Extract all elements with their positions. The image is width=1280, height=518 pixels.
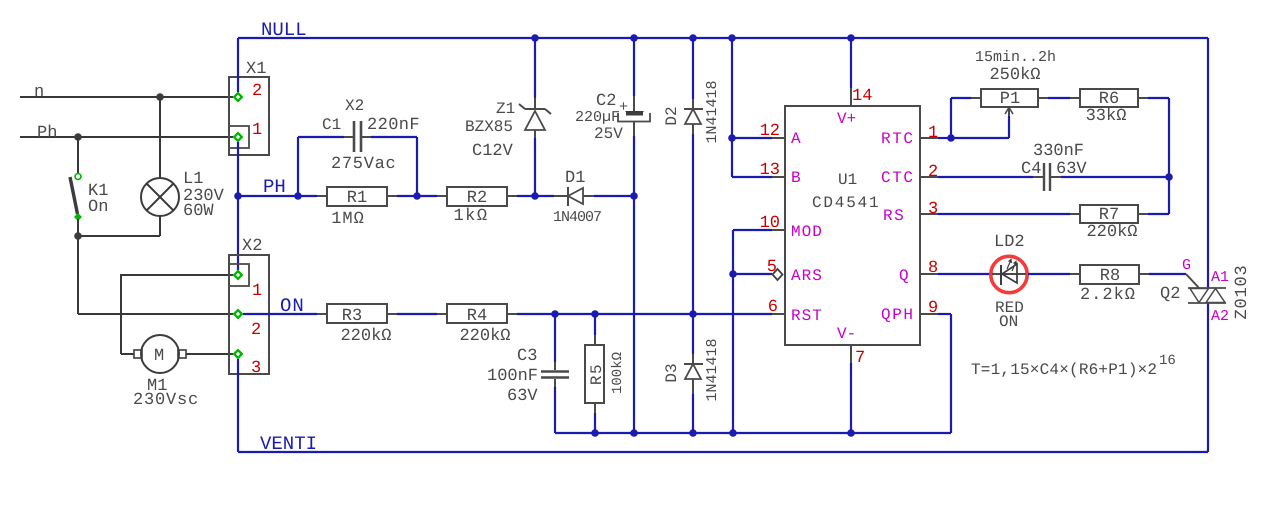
label 100kΩ of R5 (rotated) <box>610 352 626 394</box>
label On <box>88 198 108 217</box>
pin number 10 <box>760 214 780 233</box>
svg-text:1kΩ: 1kΩ <box>453 207 488 226</box>
svg-text:U1: U1 <box>838 171 857 189</box>
svg-text:16: 16 <box>1159 353 1176 369</box>
label 63V of C4 <box>1056 160 1087 179</box>
pin number 8 <box>928 259 938 278</box>
svg-text:BZX85: BZX85 <box>465 118 513 136</box>
svg-text:15min..2h: 15min..2h <box>975 49 1056 66</box>
pin number 12 <box>760 122 780 141</box>
net label n <box>34 83 44 102</box>
label 60W <box>183 202 214 221</box>
wire P1 wiper <box>951 116 1009 138</box>
svg-text:R8: R8 <box>1100 267 1120 286</box>
node junction lamp/n <box>156 93 164 101</box>
svg-text:T=1,15×C4×(R6+P1)×2: T=1,15×C4×(R6+P1)×2 <box>971 361 1157 379</box>
label D3 (rotated) <box>663 363 681 382</box>
svg-text:C12V: C12V <box>472 142 514 161</box>
node junction lamp/K1 <box>74 232 82 240</box>
wire pin1 RTC <box>920 137 951 139</box>
node Z1/PH junction <box>531 192 539 200</box>
svg-text:D2: D2 <box>663 106 681 125</box>
label 63V <box>507 387 538 406</box>
svg-text:V+: V+ <box>837 110 856 128</box>
node C1 left junction <box>294 192 302 200</box>
svg-text:A: A <box>791 130 801 148</box>
svg-text:M: M <box>154 347 164 366</box>
label BZX85 <box>465 118 513 136</box>
svg-text:3: 3 <box>928 200 938 219</box>
pin name ARS <box>791 267 823 285</box>
pin name QPH <box>881 306 915 324</box>
label 220nF <box>367 116 420 135</box>
wire ARS down to V- <box>732 274 734 433</box>
diode D1 <box>554 187 634 206</box>
resistor R5 <box>585 314 606 433</box>
triac Q2 <box>1186 274 1226 303</box>
svg-text:220kΩ: 220kΩ <box>340 327 391 346</box>
node R5/RST junction <box>591 310 599 318</box>
pin number 9 <box>928 299 938 318</box>
connector X1 <box>229 77 269 155</box>
label C3 <box>517 347 537 366</box>
svg-text:R5: R5 <box>588 363 606 385</box>
wire n (mains neutral) <box>20 96 233 98</box>
pin number 6 <box>768 298 778 317</box>
wire DC bus down from D1 junction <box>633 196 635 433</box>
wire pin13 B <box>732 176 785 178</box>
net label NULL <box>261 19 307 41</box>
wire R6 to right column <box>1138 98 1169 214</box>
pin number X1 1 <box>252 121 262 140</box>
resistor R3 <box>327 304 387 326</box>
wire A/B feed from NULL <box>731 38 733 177</box>
wire pin9 QPH <box>920 314 951 433</box>
label D1 <box>565 169 585 188</box>
svg-text:PH: PH <box>263 176 286 198</box>
wire pin12 A <box>732 137 785 139</box>
pin name MOD <box>791 223 823 241</box>
pin number 3 <box>928 200 938 219</box>
connector X2 <box>229 255 269 374</box>
svg-text:X2: X2 <box>345 97 364 115</box>
label 15min..2h <box>975 49 1056 66</box>
pin number X2 1 <box>252 282 262 301</box>
wire V- rail <box>555 432 951 434</box>
svg-text:275Vac: 275Vac <box>331 155 396 174</box>
node MOD/ARS junction <box>729 270 737 278</box>
node A junction <box>728 134 736 142</box>
svg-text:2: 2 <box>252 82 262 101</box>
label X1 <box>246 60 266 79</box>
wire pin2 CTC <box>920 176 1043 178</box>
wire R8 to gate <box>1139 273 1186 275</box>
label 2.2kΩ <box>1080 286 1136 305</box>
label M1 <box>147 377 167 396</box>
label D2 (rotated) <box>663 106 681 125</box>
svg-text:1: 1 <box>252 282 262 301</box>
pin number 5 <box>767 258 777 277</box>
pin X2.3 <box>233 349 244 360</box>
svg-text:X1: X1 <box>246 60 266 79</box>
svg-text:250kΩ: 250kΩ <box>989 66 1040 85</box>
svg-text:VENTI: VENTI <box>260 433 317 455</box>
pin name A2 <box>1211 308 1229 325</box>
label 220µF <box>575 109 620 126</box>
svg-text:R1: R1 <box>347 189 367 208</box>
node C2/D1 junction <box>630 192 638 200</box>
label RED <box>995 299 1024 317</box>
svg-text:Z1: Z1 <box>496 100 515 118</box>
pin name B <box>791 169 801 187</box>
pin number X2 3 <box>251 359 261 378</box>
label 220kΩ of R3 <box>340 327 391 346</box>
label C4 <box>1021 160 1041 179</box>
svg-text:X2: X2 <box>242 237 262 256</box>
node pin7/V- junction <box>847 429 855 437</box>
label formula T=1,15×C4×(R6+P1)×2^16 <box>971 353 1176 379</box>
svg-text:230Vsc: 230Vsc <box>133 391 199 410</box>
label ON of LD2 <box>999 313 1018 331</box>
node D2/NULL junction <box>689 34 697 42</box>
svg-text:RS: RS <box>883 207 905 225</box>
svg-text:220nF: 220nF <box>367 116 420 135</box>
svg-text:LD2: LD2 <box>994 233 1025 252</box>
label 230V <box>183 187 225 206</box>
svg-text:C4: C4 <box>1021 160 1041 179</box>
label 1MΩ <box>331 210 365 229</box>
pin X1.2 <box>233 92 244 103</box>
svg-text:Q2: Q2 <box>1160 285 1180 304</box>
wire right border (triac branch) upper <box>1207 38 1209 288</box>
node D2/D3/RST junction <box>689 310 697 318</box>
label + of C2 <box>619 99 628 116</box>
label 220kΩ of R7 <box>1086 223 1137 242</box>
pin name V- <box>837 325 856 343</box>
pin number 2 <box>928 163 938 182</box>
label 1N41418 of D2 (rotated) <box>704 80 721 143</box>
pin name A1 <box>1211 269 1229 286</box>
svg-text:8: 8 <box>928 259 938 278</box>
label X2 connector <box>242 237 262 256</box>
capacitor C1 <box>298 121 417 196</box>
label C12V <box>472 142 514 161</box>
label K1 <box>88 182 108 201</box>
node R5/V- junction <box>591 429 599 437</box>
node junction K1/Ph <box>74 133 82 141</box>
wire X2 pin 1 to motor loop <box>121 274 233 354</box>
wire X1.2 to NULL <box>237 38 239 92</box>
svg-text:+: + <box>619 99 628 116</box>
label Z0103 (rotated) <box>1233 264 1252 319</box>
resistor R1 <box>327 187 387 208</box>
wire X1.1 to PH <box>237 142 239 196</box>
node pin14/NULL junction <box>847 34 855 42</box>
diode D2 <box>684 38 703 314</box>
svg-text:25V: 25V <box>594 125 623 143</box>
pin X1.1 <box>233 132 244 143</box>
node ARS/V- junction <box>729 429 737 437</box>
label 250kΩ <box>989 66 1040 85</box>
wire Ph (mains phase) <box>20 136 233 138</box>
capacitor C2 <box>618 38 650 196</box>
label C2 <box>596 92 616 111</box>
wire R7 to right column <box>1138 213 1169 215</box>
wire K1 to X2 pin 2 <box>78 313 233 315</box>
svg-text:1: 1 <box>928 124 938 143</box>
wire pin7 V- down <box>850 345 852 433</box>
svg-text:R4: R4 <box>467 307 487 326</box>
svg-text:A1: A1 <box>1211 269 1229 286</box>
label 1N41418 of D3 (rotated) <box>704 338 721 401</box>
svg-text:CTC: CTC <box>881 169 915 187</box>
pin X2.2 <box>233 309 244 320</box>
svg-text:RTC: RTC <box>881 130 915 148</box>
resistor R8 <box>1080 265 1139 286</box>
wire right border (triac branch) lower <box>1207 303 1209 452</box>
pin5 inversion diamond <box>773 269 783 280</box>
led LD2 <box>991 256 1027 292</box>
node D3/V- junction <box>689 429 697 437</box>
svg-text:9: 9 <box>928 299 938 318</box>
node PH/X1 junction <box>234 192 242 200</box>
wire pin14 V+ to NULL <box>850 38 852 106</box>
svg-text:P1: P1 <box>1000 90 1020 109</box>
resistor R7 <box>1080 205 1138 225</box>
capacitor C4 <box>1044 163 1169 191</box>
label Z1 <box>496 100 515 118</box>
node C2/NULL junction <box>630 34 638 42</box>
svg-text:C1: C1 <box>322 116 341 134</box>
wire pin10 MOD <box>733 230 785 274</box>
pin name RTC <box>881 130 915 148</box>
net label ON <box>280 295 305 317</box>
zener Z1 <box>519 38 551 196</box>
net label PH <box>263 176 286 198</box>
net label VENTI <box>260 433 317 455</box>
label 100nF <box>487 367 538 386</box>
potentiometer P1 <box>981 89 1038 116</box>
resistor R2 <box>447 187 507 208</box>
pin name CTC <box>881 169 915 187</box>
pin number 14 <box>852 87 872 106</box>
svg-text:QPH: QPH <box>881 306 915 324</box>
wire ON / RST line <box>243 313 785 315</box>
svg-text:1N41418: 1N41418 <box>704 338 721 401</box>
svg-text:2: 2 <box>251 321 261 340</box>
lamp L1 <box>78 97 179 236</box>
motor M1 <box>134 335 233 373</box>
svg-text:On: On <box>88 198 108 217</box>
svg-text:A2: A2 <box>1211 308 1229 325</box>
label X2 (part of C1) <box>345 97 364 115</box>
svg-text:ON: ON <box>999 313 1018 331</box>
pin number X2 2 <box>251 321 261 340</box>
svg-text:63V: 63V <box>507 387 538 406</box>
wire LD2 to R8 <box>1028 273 1080 275</box>
svg-text:100kΩ: 100kΩ <box>610 352 626 394</box>
label 1kΩ <box>453 207 488 226</box>
wire X2.3 to VENTI <box>237 359 239 452</box>
svg-text:2: 2 <box>928 163 938 182</box>
label 1N4007 <box>553 209 601 226</box>
svg-text:14: 14 <box>852 87 872 106</box>
svg-text:D1: D1 <box>565 169 585 188</box>
svg-text:220kΩ: 220kΩ <box>1086 223 1137 242</box>
svg-text:R2: R2 <box>467 189 487 208</box>
pin name RST <box>791 307 823 325</box>
net label Ph <box>37 124 57 143</box>
wire PH line <box>238 195 554 197</box>
node Z1/NULL junction <box>531 34 539 42</box>
wire VENTI rail <box>238 451 1208 453</box>
svg-text:Z0103: Z0103 <box>1233 264 1252 319</box>
node C1 right junction <box>413 192 421 200</box>
switch K1 <box>70 137 82 314</box>
svg-text:1N4007: 1N4007 <box>553 209 601 226</box>
label 275Vac <box>331 155 396 174</box>
label L1 <box>183 170 203 189</box>
svg-text:C3: C3 <box>517 347 537 366</box>
svg-text:V-: V- <box>837 325 856 343</box>
svg-text:n: n <box>34 83 44 102</box>
svg-text:1N41418: 1N41418 <box>704 80 721 143</box>
svg-text:R3: R3 <box>342 307 362 326</box>
pin name RS <box>883 207 905 225</box>
svg-text:6: 6 <box>768 298 778 317</box>
label 25V <box>594 125 623 143</box>
wire pin3 RS <box>920 213 1080 215</box>
label 330nF <box>1033 142 1084 161</box>
svg-text:NULL: NULL <box>261 19 307 41</box>
node C3/RST junction <box>551 310 559 318</box>
node C4/right column junction <box>1165 173 1173 181</box>
svg-text:D3: D3 <box>663 363 681 382</box>
svg-text:G: G <box>1182 257 1191 274</box>
ic U1 CD4541 <box>785 106 920 345</box>
svg-text:7: 7 <box>855 349 865 368</box>
node A-B feed/NULL junction <box>728 34 736 42</box>
svg-text:220µF: 220µF <box>575 109 620 126</box>
net label G <box>1182 257 1191 274</box>
svg-text:ARS: ARS <box>791 267 823 285</box>
wire NULL rail <box>238 37 1208 39</box>
svg-text:Ph: Ph <box>37 124 57 143</box>
svg-text:330nF: 330nF <box>1033 142 1084 161</box>
diode D3 <box>684 314 703 433</box>
resistor R4 <box>447 304 507 326</box>
wire pin5 ARS <box>733 273 772 275</box>
pin name V+ <box>837 110 856 128</box>
pin name Q <box>899 267 909 285</box>
pin number 1 <box>928 124 938 143</box>
label 230Vsc <box>133 391 199 410</box>
svg-text:1MΩ: 1MΩ <box>331 210 365 229</box>
node RTC junction <box>947 134 955 142</box>
label 220kΩ of R4 <box>459 327 510 346</box>
wire P1 to R6 <box>1038 97 1080 99</box>
wire pin8 Q <box>920 273 994 275</box>
wire RTC up to P1 <box>951 98 981 138</box>
capacitor C3 <box>541 314 569 433</box>
svg-text:CD4541: CD4541 <box>812 194 880 212</box>
label C1 <box>322 116 341 134</box>
node DC bus/V- junction <box>630 429 638 437</box>
pin number X1 2 <box>252 82 262 101</box>
svg-text:220kΩ: 220kΩ <box>459 327 510 346</box>
pin number 13 <box>760 161 780 180</box>
svg-text:Q: Q <box>899 267 909 285</box>
label Q2 <box>1160 285 1180 304</box>
svg-text:60W: 60W <box>183 202 214 221</box>
svg-text:B: B <box>791 169 801 187</box>
svg-text:1: 1 <box>252 121 262 140</box>
svg-text:ON: ON <box>280 295 305 317</box>
svg-text:3: 3 <box>251 359 261 378</box>
pin number 7 <box>855 349 865 368</box>
svg-text:RST: RST <box>791 307 823 325</box>
pin name A <box>791 130 801 148</box>
svg-text:2.2kΩ: 2.2kΩ <box>1080 286 1136 305</box>
resistor R6 <box>1080 89 1138 109</box>
svg-text:100nF: 100nF <box>487 367 538 386</box>
pin X2.1 <box>233 270 244 281</box>
label LD2 <box>994 233 1025 252</box>
wire PH to X2.1 <box>237 196 239 270</box>
svg-text:63V: 63V <box>1056 160 1087 179</box>
svg-text:33kΩ: 33kΩ <box>1086 107 1127 126</box>
label 33kΩ <box>1086 107 1127 126</box>
svg-text:MOD: MOD <box>791 223 823 241</box>
